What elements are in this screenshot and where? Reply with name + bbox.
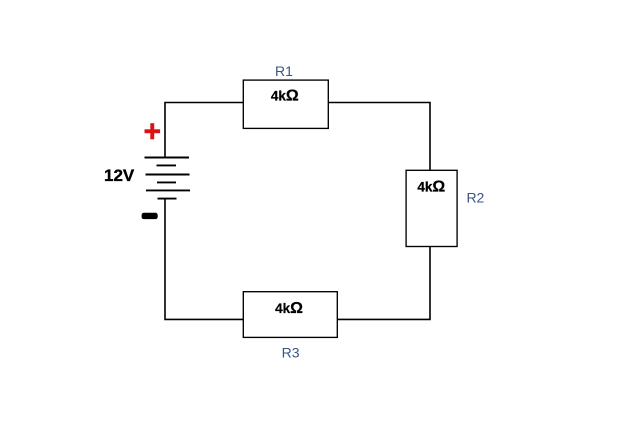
svg-text:R2: R2 [466, 190, 484, 206]
svg-text:4kΩ: 4kΩ [417, 178, 445, 195]
svg-text:R3: R3 [282, 345, 300, 361]
svg-text:4kΩ: 4kΩ [275, 300, 303, 317]
svg-text:12V: 12V [104, 166, 135, 185]
svg-text:R1: R1 [275, 63, 293, 79]
svg-text:4kΩ: 4kΩ [271, 88, 299, 105]
